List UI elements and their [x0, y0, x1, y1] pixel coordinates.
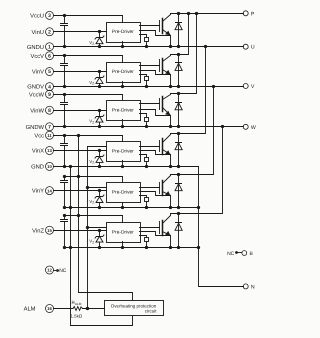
- wire emitter sense V: [140, 71, 171, 75]
- pin VinV (5): [32, 68, 54, 76]
- wire VinY to pre-driver: [54, 190, 107, 192]
- terminal N: [243, 284, 255, 291]
- capacitor CY bypass: [61, 175, 68, 209]
- pin VinW (8): [30, 106, 53, 114]
- wire gate drive U: [140, 25, 160, 27]
- transistor IGBT QV (high side): [160, 55, 173, 89]
- transistor IGBT QU (high side): [160, 14, 173, 49]
- resistor sense RZ: [140, 236, 149, 250]
- svg-text:VZ: VZ: [89, 80, 94, 86]
- svg-text:P: P: [251, 11, 255, 17]
- wire overheat shutdown into Y: [88, 187, 107, 189]
- svg-text:Vcc: Vcc: [34, 133, 44, 139]
- pre-driver U-V: [107, 63, 141, 83]
- wire VccU to pre-driver: [54, 16, 123, 23]
- capacitor CU supply bypass: [61, 14, 68, 48]
- pre-driver U-Y: [107, 183, 141, 203]
- svg-text:8: 8: [48, 108, 51, 114]
- svg-text:NC: NC: [227, 251, 235, 257]
- pin GNDU (1): [27, 43, 54, 51]
- svg-text:7: 7: [48, 125, 51, 131]
- terminal P: [243, 11, 255, 17]
- wire VinZ to pre-driver: [54, 230, 107, 232]
- pin VccV (6): [30, 52, 53, 60]
- diode DY freewheel: [175, 173, 182, 209]
- wire gate drive Y: [140, 187, 160, 189]
- svg-text:VZ: VZ: [89, 119, 94, 125]
- pin GNDW (7): [26, 123, 54, 131]
- svg-text:16: 16: [47, 306, 52, 311]
- resistor sense RY: [140, 196, 149, 210]
- svg-text:Pre-Driver: Pre-Driver: [112, 148, 134, 154]
- transistor IGBT QZ (low side): [160, 214, 173, 250]
- svg-text:VinW: VinW: [30, 107, 44, 114]
- capacitor CX bypass: [61, 134, 68, 168]
- wire V output to Y collector: [171, 87, 214, 175]
- svg-text:VccV: VccV: [30, 54, 44, 60]
- svg-text:11: 11: [47, 133, 52, 138]
- pin VinU (2): [32, 28, 54, 36]
- wire VinU to pre-driver: [54, 31, 107, 33]
- resistor sense RV: [140, 75, 149, 89]
- wire pre-driver Y gnd return: [121, 203, 124, 210]
- svg-text:VccW: VccW: [29, 92, 45, 98]
- pin ALM (16): [24, 305, 54, 313]
- terminal W: [243, 124, 256, 131]
- wire gate drive Z: [140, 227, 160, 229]
- wire emitter sense W: [140, 110, 171, 116]
- pin VccU (3): [30, 11, 53, 19]
- svg-text:N: N: [251, 284, 255, 290]
- wire ALM line: [54, 307, 105, 310]
- pin VinX (13): [32, 147, 54, 155]
- pin VinZ (15): [32, 226, 53, 234]
- svg-text:1.5kΩ: 1.5kΩ: [71, 313, 83, 318]
- wire Vcc feed row Y: [65, 177, 123, 183]
- wire GND rail row Z: [65, 247, 199, 249]
- svg-text:circuit: circuit: [145, 308, 158, 313]
- wire pre-driver W gnd return: [121, 120, 124, 129]
- capacitor CW supply bypass: [61, 93, 68, 128]
- svg-text:Pre-Driver: Pre-Driver: [112, 108, 134, 114]
- resistor sense RX: [140, 155, 149, 169]
- transistor IGBT QY (low side): [160, 175, 173, 210]
- wire overheat shutdown into X: [88, 146, 107, 148]
- terminal B (NC): [227, 251, 253, 257]
- svg-text:15: 15: [47, 228, 52, 233]
- wire GND bus: [69, 165, 72, 326]
- svg-text:Pre-Driver: Pre-Driver: [112, 29, 134, 35]
- svg-text:VZ: VZ: [89, 159, 94, 165]
- wire pre-driver X gnd return: [121, 161, 124, 169]
- svg-text:1: 1: [48, 44, 51, 50]
- svg-text:Pre-Driver: Pre-Driver: [112, 230, 134, 236]
- svg-text:W: W: [251, 125, 256, 131]
- svg-text:5: 5: [48, 69, 51, 75]
- zener diode Vz X: [89, 149, 104, 168]
- zener diode Vz Y: [89, 189, 104, 209]
- capacitor CV supply bypass: [61, 54, 68, 88]
- svg-text:VinV: VinV: [32, 69, 44, 76]
- pre-driver U-Z: [107, 223, 141, 243]
- wire GND bus to overheating circuit: [71, 317, 133, 326]
- pre-driver U-U: [107, 23, 141, 43]
- svg-text:VccU: VccU: [30, 14, 44, 20]
- svg-text:GNDW: GNDW: [26, 124, 45, 131]
- wire VinW to pre-driver: [54, 110, 107, 112]
- svg-text:VinY: VinY: [32, 188, 44, 195]
- wire emitter sense Z: [140, 232, 171, 236]
- svg-text:9: 9: [48, 92, 51, 98]
- pin GND (10): [31, 162, 53, 170]
- pin VinY (14): [32, 187, 54, 195]
- zener diode Vz Z: [89, 229, 104, 249]
- wire Vcc bus: [77, 134, 80, 293]
- wire overheat shutdown bus: [86, 147, 89, 311]
- svg-text:Pre-Driver: Pre-Driver: [112, 190, 134, 196]
- wire N line: [197, 167, 244, 287]
- node W output junction: [221, 125, 224, 128]
- svg-text:U: U: [251, 45, 255, 51]
- wire Vcc feed row Z: [65, 216, 123, 223]
- zener diode Vz U: [89, 30, 104, 48]
- svg-text:VinZ: VinZ: [32, 227, 44, 234]
- wire Vcc line to X pre-driver: [54, 136, 123, 142]
- wire pre-driver U gnd return: [121, 42, 124, 49]
- wire emitter sense X: [140, 151, 171, 155]
- zener diode Vz W: [89, 109, 104, 128]
- diode DX freewheel: [175, 132, 182, 168]
- wire GNDW rail / phase W output: [54, 126, 244, 128]
- svg-text:10: 10: [47, 164, 52, 169]
- svg-text:4: 4: [48, 84, 51, 90]
- wire GNDU rail / phase U output: [54, 46, 244, 48]
- diode DZ freewheel: [175, 212, 182, 249]
- svg-text:VinX: VinX: [32, 148, 44, 155]
- wire VinV to pre-driver: [54, 71, 107, 73]
- wire overheat shutdown into Z: [88, 227, 107, 229]
- diode DW freewheel: [175, 92, 182, 128]
- pre-driver U-W: [107, 101, 141, 121]
- diode DV freewheel: [175, 53, 182, 88]
- transistor IGBT QX (low side): [160, 134, 173, 169]
- svg-text:ALM: ALM: [24, 307, 36, 313]
- svg-text:VZ: VZ: [89, 239, 94, 245]
- pre-driver U-X: [107, 142, 141, 162]
- svg-text:NC: NC: [59, 268, 67, 274]
- resistor RALM 1.5k: [71, 300, 83, 318]
- wire gate drive W: [140, 103, 160, 105]
- wire VinX to pre-driver: [54, 150, 107, 152]
- resistor sense RU: [140, 35, 149, 49]
- terminal V: [243, 84, 255, 91]
- wire gate drive X: [140, 146, 160, 148]
- capacitor CZ bypass: [61, 214, 68, 249]
- wire GND rail row Y: [65, 207, 199, 209]
- wire Vcc bus to overheating circuit: [79, 293, 133, 301]
- svg-text:14: 14: [47, 188, 52, 193]
- diode DU freewheel: [175, 12, 182, 48]
- pin GNDV (4): [27, 83, 53, 91]
- svg-text:6: 6: [48, 53, 51, 59]
- wire pre-driver Z gnd return: [121, 242, 124, 250]
- wire GNDV rail / phase V output: [54, 86, 244, 88]
- wire gate drive V: [140, 65, 160, 67]
- pin VccW (9): [29, 90, 54, 98]
- node U output junction: [204, 45, 207, 48]
- svg-text:3: 3: [48, 13, 51, 19]
- wire P to V collector node: [171, 12, 191, 55]
- wire P rail: [171, 13, 244, 15]
- wire VccV to pre-driver: [54, 56, 123, 63]
- transistor IGBT QW (high side): [160, 94, 173, 129]
- wire P to W collector node: [171, 12, 199, 94]
- svg-text:Pre-Driver: Pre-Driver: [112, 69, 134, 75]
- wire U output to X collector: [171, 47, 206, 134]
- svg-text:2: 2: [48, 30, 51, 36]
- pin Vcc (11): [34, 131, 53, 139]
- terminal U: [243, 44, 255, 51]
- node V output junction: [212, 85, 215, 88]
- wire emitter sense U: [140, 31, 171, 36]
- svg-text:VZ: VZ: [89, 199, 94, 205]
- svg-text:GNDU: GNDU: [27, 44, 44, 51]
- overheating protection circuit U7: [105, 301, 164, 316]
- wire pre-driver V gnd return: [121, 82, 124, 89]
- resistor sense RW: [140, 114, 149, 129]
- wire VccW to pre-driver: [54, 95, 123, 101]
- wire GND rail X row: [54, 166, 199, 168]
- wire W output to Z collector: [171, 127, 223, 214]
- svg-text:VZ: VZ: [89, 40, 94, 46]
- svg-text:RALM: RALM: [72, 300, 82, 306]
- wire emitter sense Y: [140, 192, 171, 196]
- svg-text:13: 13: [47, 148, 52, 153]
- zener diode Vz V: [89, 70, 104, 88]
- svg-text:V: V: [251, 84, 255, 90]
- svg-text:12: 12: [47, 268, 52, 273]
- pin 12 (NC): [46, 266, 67, 274]
- svg-text:VinU: VinU: [32, 29, 44, 36]
- svg-text:GNDV: GNDV: [27, 84, 44, 91]
- svg-text:GND: GND: [31, 164, 44, 171]
